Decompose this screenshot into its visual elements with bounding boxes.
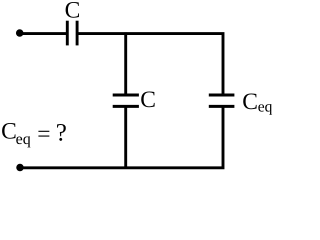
svg-text:eq: eq xyxy=(258,99,273,116)
svg-text:C: C xyxy=(140,87,156,113)
svg-text:C: C xyxy=(1,119,17,145)
svg-text:?: ? xyxy=(56,119,67,146)
svg-text:C: C xyxy=(65,0,81,23)
svg-text:C: C xyxy=(242,89,258,115)
svg-text:=: = xyxy=(37,121,50,147)
svg-text:eq: eq xyxy=(16,131,31,148)
